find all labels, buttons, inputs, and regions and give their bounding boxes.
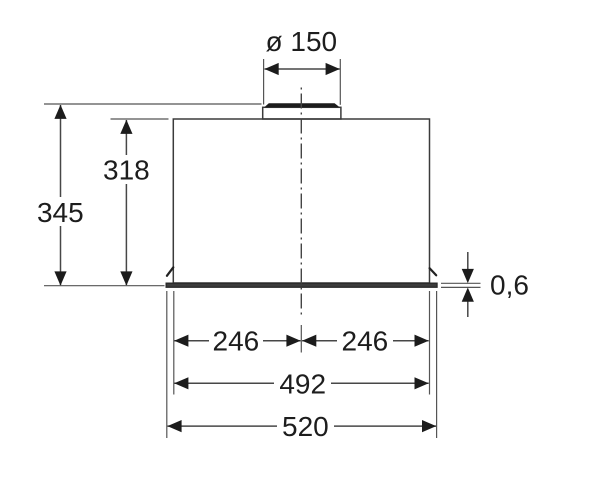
dimension 246 right label: [342, 325, 389, 356]
extension line: 520 left: [166, 291, 168, 438]
bottom flange plate 520 wide: [166, 283, 437, 287]
svg-text:246: 246: [342, 325, 389, 356]
dimension 0,6 label: [490, 269, 529, 300]
dimension 345 label: [37, 197, 84, 228]
svg-text:0,6: 0,6: [490, 269, 529, 300]
svg-text:ø 150: ø 150: [265, 26, 337, 57]
dimension 492 line: [174, 377, 429, 389]
extension line: 345 top: [44, 103, 262, 105]
dimension 0,6 arrows: [462, 252, 474, 317]
svg-text:318: 318: [103, 155, 150, 186]
dimension 492 label: [279, 368, 326, 399]
svg-text:345: 345: [37, 197, 84, 228]
dimension o150 line: [265, 63, 340, 75]
hood body outline: [173, 119, 429, 283]
extension line: o150 left: [263, 59, 265, 105]
svg-text:520: 520: [282, 411, 329, 442]
extension line: 0,6 bottom: [441, 286, 481, 288]
right bend tick: [430, 268, 437, 275]
dimension 246 right line: [302, 335, 429, 347]
extension line: 246 center: [300, 325, 302, 353]
extension line: 520 right: [436, 291, 438, 438]
dimension 246 left label: [213, 325, 260, 356]
dimension 318 line: [120, 120, 132, 286]
extension line: 492/246 right: [429, 291, 431, 395]
extension line: 0,6 top: [441, 282, 481, 284]
dimension 318 label: [103, 155, 150, 186]
dimension 520 line: [167, 420, 436, 432]
dimension o150 label: [265, 26, 337, 57]
dimension 520 label: [282, 411, 329, 442]
dimension 246 left line: [174, 335, 300, 347]
duct collar rim cap: [264, 103, 340, 107]
svg-text:246: 246: [213, 325, 260, 356]
left bend tick: [167, 267, 173, 276]
svg-text:492: 492: [279, 368, 326, 399]
dimension 345 line: [54, 105, 66, 286]
vertical centerline: [300, 88, 302, 319]
extension line: 318 top: [111, 118, 169, 120]
extension line: 345/318 bottom: [44, 285, 165, 287]
duct collar ø150 outline: [263, 107, 341, 119]
extension line: o150 right: [339, 59, 341, 105]
extension line: 492/246 left: [173, 291, 175, 395]
